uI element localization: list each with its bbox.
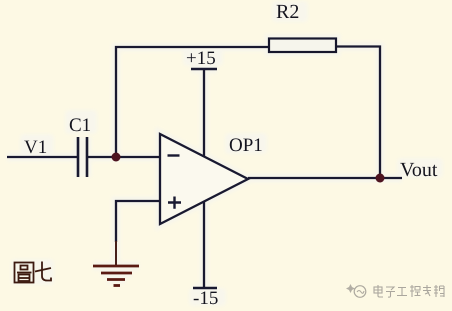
svg-text:R2: R2 [276,1,299,23]
svg-text:OP1: OP1 [229,135,263,156]
svg-text:-15: -15 [193,288,218,309]
svg-text:C1: C1 [69,115,91,136]
svg-text:V1: V1 [24,137,47,158]
svg-text:+15: +15 [186,48,216,69]
svg-text:Vout: Vout [400,159,438,181]
